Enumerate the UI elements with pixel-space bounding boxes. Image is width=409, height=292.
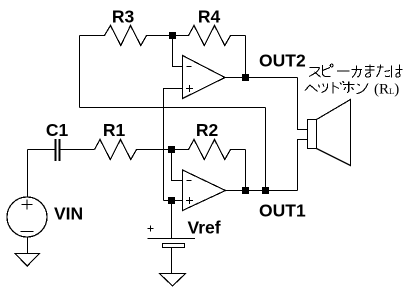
wire OUT1 to speaker bottom terminal (298, 140, 308, 191)
speaker RL (308, 100, 351, 166)
glyph ホ (343, 82, 355, 94)
battery Vref (148, 226, 196, 248)
op-amp U1 (183, 56, 226, 99)
svg-text:OUT2: OUT2 (259, 51, 306, 71)
node Vref junction (168, 197, 175, 204)
resistor R3 (80, 26, 170, 46)
svg-text:R4: R4 (198, 7, 221, 27)
wire battery to ground (171, 248, 173, 274)
glyph ま (365, 65, 375, 78)
annotation speaker text line2: ヘッドホン (RL) (305, 81, 368, 94)
svg-text:OUT1: OUT1 (259, 201, 306, 221)
node A junction R1-R2-U2 (168, 146, 175, 153)
node OUT2 (242, 74, 249, 81)
svg-text:VIN: VIN (54, 204, 83, 224)
wire feedback loop bottom (80, 107, 266, 109)
glyph た (377, 65, 391, 78)
svg-text:R1: R1 (103, 120, 126, 140)
wire feedback loop right down to OUT1 (265, 108, 267, 191)
glyph ッ (319, 84, 328, 93)
ground VIN (15, 254, 40, 267)
wire U1 output to OUT2 node (225, 77, 298, 79)
wire U2 output OUT1 row (226, 190, 298, 192)
svg-text:Vref: Vref (188, 218, 221, 238)
node OUT1 R2 feedback (242, 187, 249, 194)
wire U1 non-inverting input from Vref rail (164, 89, 184, 201)
node OUT1 loop (262, 187, 269, 194)
glyph ピ (323, 64, 333, 76)
wire VIN top to C1 (27, 150, 29, 198)
svg-text:C1: C1 (46, 120, 69, 140)
glyph ド (333, 81, 344, 94)
annotation speaker text line1: スピーカまたは (309, 64, 403, 77)
glyph は (392, 65, 403, 78)
wire feedback loop left: R3 left down (79, 36, 81, 108)
glyph カ (352, 66, 363, 78)
wire R2 right down to OUT1 (245, 150, 247, 191)
wire U2 non-inverting input (164, 200, 184, 202)
glyph ス (309, 68, 321, 78)
node junction R3-R4 (169, 32, 176, 39)
glyph ー (337, 70, 350, 72)
wire node A to U2 inverting input (172, 153, 184, 181)
wire VIN to ground (27, 237, 29, 254)
capacitor C1 (28, 139, 95, 161)
svg-text:R3: R3 (112, 7, 135, 27)
resistor R1 (95, 140, 169, 160)
wire R4 right down to OUT2 node (245, 36, 247, 78)
resistor R4 (176, 26, 246, 46)
glyph ヘ (305, 85, 318, 92)
wire junction to U1 inverting input (173, 39, 184, 67)
source VIN (7, 197, 47, 237)
op-amp U2 (183, 170, 226, 211)
resistor R2 (175, 140, 246, 160)
glyph ン (357, 84, 368, 94)
wire Vref node down to battery (171, 204, 173, 239)
svg-text:(RL): (RL) (374, 82, 399, 98)
ground Vref (160, 274, 186, 287)
wire OUT2 to speaker top terminal (298, 78, 308, 130)
svg-text:R2: R2 (196, 120, 219, 140)
